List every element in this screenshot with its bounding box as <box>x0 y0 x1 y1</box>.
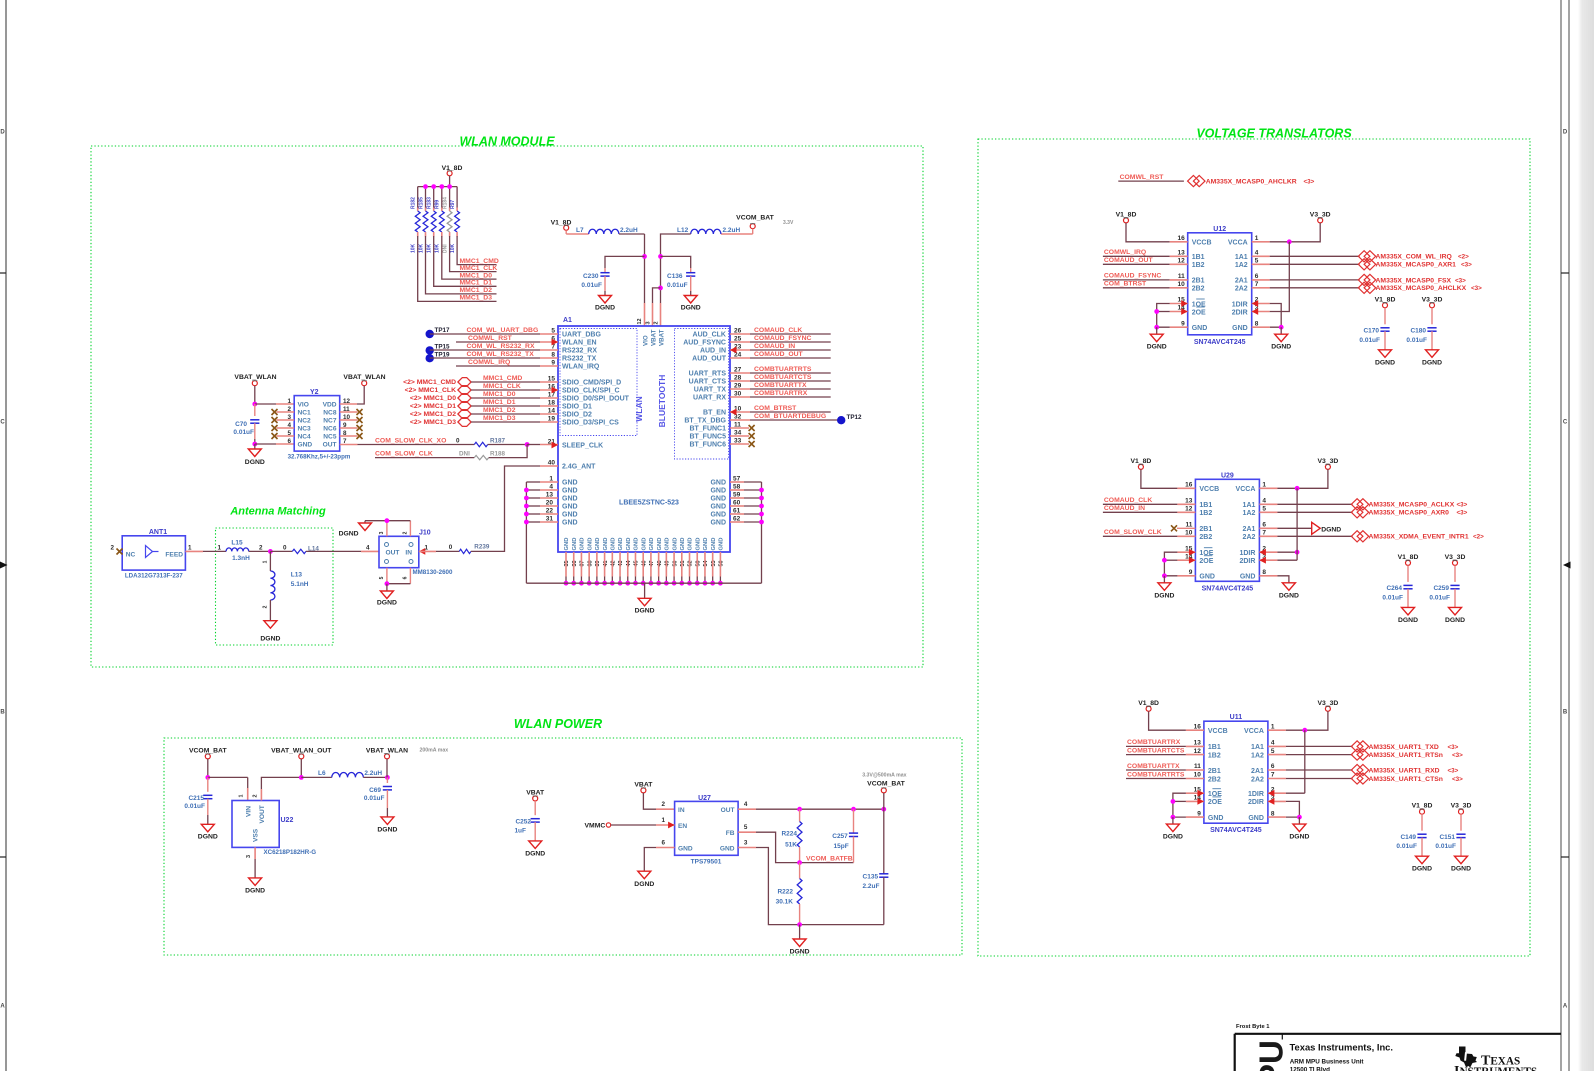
junction U11 VCCA-DIR tie <box>1302 728 1307 733</box>
svg-text:VIO: VIO <box>298 402 309 409</box>
power symbol VBAT_WLAN (Y2 VDD) <box>362 381 367 386</box>
svg-text:3: 3 <box>744 839 748 846</box>
svg-text:DGND: DGND <box>681 305 701 312</box>
wire V3_3D to U12 VCCA <box>1252 241 1270 243</box>
svg-text:TP12: TP12 <box>847 414 863 421</box>
sheet border right inner line <box>1560 0 1562 1071</box>
wire U11 1DIR tie to VCCA <box>1268 792 1286 794</box>
wire pullup to net MMC1_CMD <box>457 236 496 265</box>
svg-text:2OE: 2OE <box>1192 309 1206 316</box>
svg-text:AM335X_MCASP0_FSX: AM335X_MCASP0_FSX <box>1376 277 1452 284</box>
svg-text:8: 8 <box>1255 320 1259 327</box>
svg-text:0.01uF: 0.01uF <box>364 795 385 802</box>
svg-text:12: 12 <box>1185 506 1193 513</box>
svg-text:35: 35 <box>564 561 570 567</box>
svg-text:GND: GND <box>703 538 709 551</box>
svg-text:GND: GND <box>688 538 694 551</box>
test point TP19 <box>426 354 434 362</box>
svg-text:2B1: 2B1 <box>1192 278 1205 285</box>
svg-text:WLAN POWER: WLAN POWER <box>514 717 602 731</box>
svg-text:1B1: 1B1 <box>1208 744 1221 751</box>
svg-text:DGND: DGND <box>1398 617 1418 624</box>
svg-text:2A2: 2A2 <box>1235 286 1248 293</box>
section box WLAN POWER <box>164 738 962 955</box>
svg-text:C252: C252 <box>515 819 531 826</box>
svg-text:COMAUD_OUT: COMAUD_OUT <box>754 351 804 358</box>
power symbol V3_3D (C151) <box>1459 809 1464 814</box>
power symbol VBAT (U27) <box>641 788 646 793</box>
power symbol V1_8D (C149) <box>1420 809 1425 814</box>
svg-text:2A2: 2A2 <box>1251 776 1264 783</box>
ground DGND (C230) <box>599 296 612 304</box>
wire R239 to J10 IN pin 1 <box>419 548 426 555</box>
svg-text:R239: R239 <box>474 544 490 551</box>
svg-text:12: 12 <box>1194 748 1202 755</box>
junction right GND column <box>759 512 764 517</box>
svg-text:6: 6 <box>403 576 409 579</box>
svg-text:43: 43 <box>618 561 624 567</box>
svg-text:48: 48 <box>657 561 663 567</box>
svg-text:<2> MMC1_CMD: <2> MMC1_CMD <box>403 379 456 386</box>
svg-text:2DIR: 2DIR <box>1239 558 1255 565</box>
svg-text:BT_EN: BT_EN <box>703 410 726 417</box>
svg-text:<2> MMC1_D1: <2> MMC1_D1 <box>410 403 456 410</box>
svg-text:DGND: DGND <box>1445 617 1465 624</box>
wire L7 out to A1 VIO pin 12 <box>619 233 645 235</box>
svg-text:VBAT: VBAT <box>634 782 653 789</box>
svg-text:VOLTAGE TRANSLATORS: VOLTAGE TRANSLATORS <box>1196 127 1352 141</box>
svg-text:12: 12 <box>637 318 643 324</box>
svg-text:WLAN MODULE: WLAN MODULE <box>459 135 555 149</box>
svg-text:2DIR: 2DIR <box>1248 799 1264 806</box>
svg-text:2.4G_ANT: 2.4G_ANT <box>562 464 596 471</box>
svg-text:10K: 10K <box>427 243 433 253</box>
svg-text:PU: PU <box>1253 1040 1290 1071</box>
zone tick left y857 <box>0 856 6 858</box>
IC U12 SN74AVC4T245 level translator <box>1188 233 1252 335</box>
ground DGND (J10) <box>380 591 393 599</box>
IC U29 SN74AVC4T245 level translator <box>1195 479 1259 581</box>
wire V1_8D to U12 VCCB <box>1126 223 1170 242</box>
ground DGND (L13) <box>264 621 277 629</box>
wire net COMAUD_IN to U29 <box>1103 511 1178 513</box>
off-page connector AM335X_MCASP0_AHCLKR <box>1188 176 1200 187</box>
svg-text:5: 5 <box>744 824 748 831</box>
svg-text:VCCA: VCCA <box>1236 486 1256 493</box>
svg-text:MMC1_D2: MMC1_D2 <box>483 407 516 414</box>
svg-text:R97: R97 <box>450 200 456 209</box>
zone tick right y273 <box>1561 272 1569 274</box>
svg-text:WLAN_EN: WLAN_EN <box>562 340 597 347</box>
svg-text:MMC1_D3: MMC1_D3 <box>460 295 493 302</box>
svg-text:<3>: <3> <box>1461 262 1472 269</box>
ground DGND (C180) <box>1426 350 1439 358</box>
svg-text:NC4: NC4 <box>298 434 312 441</box>
svg-text:44: 44 <box>626 561 632 567</box>
svg-text:1DIR: 1DIR <box>1248 791 1264 798</box>
wire net COMAUD_FSYNC to U12 <box>1103 279 1170 281</box>
svg-text:16: 16 <box>1185 482 1193 489</box>
svg-text:AM335X_UART1_RTSn: AM335X_UART1_RTSn <box>1369 752 1443 759</box>
svg-text:GND: GND <box>562 496 578 503</box>
off-page connector AM335X_MCASP0_FSX <box>1358 274 1370 285</box>
svg-text:2: 2 <box>263 605 269 608</box>
svg-text:MM8130-2600: MM8130-2600 <box>413 569 453 576</box>
svg-text:C69: C69 <box>369 787 381 794</box>
wire VBAT branch to pin 3 <box>653 288 661 303</box>
svg-text:GND: GND <box>710 496 726 503</box>
sheet border right outer line <box>1568 0 1570 1071</box>
wire R188 to SLEEP_CLK node <box>489 445 527 458</box>
svg-text:V1_8D: V1_8D <box>1375 296 1396 303</box>
junction right GND column <box>759 504 764 509</box>
wire net COM_SLOW_CLK to U29 <box>1103 535 1178 537</box>
section box Antenna Matching <box>216 528 334 645</box>
svg-text:COM_SLOW_CLK_XO: COM_SLOW_CLK_XO <box>375 437 446 444</box>
J10 top shield pins 3 2 to DGND <box>386 521 388 537</box>
svg-text:1: 1 <box>1271 723 1275 730</box>
wire A1 right GND column <box>761 482 763 583</box>
wire V3_3D to U29 VCCA <box>1259 487 1277 489</box>
svg-text:0.01uF: 0.01uF <box>1359 337 1380 344</box>
svg-text:GND: GND <box>1248 815 1264 822</box>
svg-text:1A1: 1A1 <box>1235 254 1248 261</box>
svg-text:11: 11 <box>1186 522 1193 529</box>
svg-text:DGND: DGND <box>1271 344 1291 351</box>
svg-text:MMC1_D3: MMC1_D3 <box>483 415 516 422</box>
svg-text:37: 37 <box>580 561 586 567</box>
wire pullup to net MMC1_D1 <box>434 236 497 286</box>
svg-text:R222: R222 <box>777 889 793 896</box>
wire net COMBTUARTRTS <box>730 372 750 374</box>
A1 BT_FUNC no-connect <box>730 443 749 445</box>
ground DGND (C170) <box>1379 350 1392 358</box>
svg-text:COMWL_RST: COMWL_RST <box>468 335 513 342</box>
wire net COMAUD_OUT to U12 <box>1103 263 1170 265</box>
wire VBAT_WLAN node to C69 <box>386 777 388 783</box>
svg-text:6: 6 <box>1255 273 1259 280</box>
svg-text:U12: U12 <box>1213 226 1226 233</box>
svg-text:56: 56 <box>719 561 725 567</box>
ground DGND (sideways, U29 2A1) <box>1259 527 1277 529</box>
wire V1_8D to pullup bus <box>449 176 451 187</box>
svg-text:V1_8D: V1_8D <box>1116 212 1137 219</box>
svg-text:UART_DBG: UART_DBG <box>562 332 601 339</box>
svg-text:2: 2 <box>110 545 114 552</box>
wire net MMC1_D3 to A1 <box>471 421 540 423</box>
node antenna match junction <box>268 549 273 554</box>
power symbol V1_8D (U11 VCCB) <box>1146 706 1151 711</box>
wire L14 to J10 OUT pin 4 <box>306 550 361 552</box>
wire net COMAUD_OUT <box>730 357 750 359</box>
svg-text:SDIO_CMD/SPI_D: SDIO_CMD/SPI_D <box>562 380 621 387</box>
svg-text:FEED: FEED <box>165 552 183 559</box>
svg-text:55: 55 <box>711 561 717 567</box>
wire net AM335X_MCASP0_AHCLKX <box>1252 287 1270 289</box>
svg-text:AM335X_COM_WL_IRQ: AM335X_COM_WL_IRQ <box>1376 254 1452 261</box>
svg-text:51K: 51K <box>785 842 797 849</box>
svg-text:0.01uF: 0.01uF <box>233 429 254 436</box>
wire U29 1DIR tie to VCCA <box>1259 551 1277 553</box>
svg-text:DGND: DGND <box>1422 359 1442 366</box>
svg-text:C: C <box>1563 420 1568 426</box>
ground DGND (U29 left) <box>1163 576 1165 583</box>
svg-text:COMAUD_OUT: COMAUD_OUT <box>1104 257 1154 264</box>
svg-text:VCOM_BAT: VCOM_BAT <box>189 748 227 755</box>
svg-text:V3_3D: V3_3D <box>1310 212 1331 219</box>
svg-text:COM_WL_UART_DBG: COM_WL_UART_DBG <box>467 327 539 334</box>
svg-text:V1_8D: V1_8D <box>1412 803 1433 810</box>
svg-text:COM_WL_RS232_RX: COM_WL_RS232_RX <box>467 343 535 350</box>
junction pullup bus <box>423 184 428 189</box>
ground DGND (A1 module) <box>644 583 646 598</box>
power symbol V1_8D (U12 VCCB) <box>1124 218 1129 223</box>
svg-text:COMAUD_IN: COMAUD_IN <box>1104 505 1145 512</box>
svg-text:200mA max: 200mA max <box>420 748 449 754</box>
regulator U22 XC6218P182HR-G <box>232 801 279 848</box>
svg-text:GND: GND <box>298 442 313 449</box>
sheet center arrow right <box>1563 562 1571 569</box>
junction ground bus <box>797 922 802 927</box>
power symbol VCOM_BAT (L12 filter) <box>750 224 755 229</box>
svg-text:ANT1: ANT1 <box>149 529 167 536</box>
wire U29 GND pin 8 to DGND <box>1259 575 1277 577</box>
wire net AM335X_XDMA_EVENT_INTR1 <box>1259 535 1277 537</box>
junction left GND column <box>524 504 529 509</box>
svg-text:COMBTUARTRTS: COMBTUARTRTS <box>1127 771 1185 778</box>
wire net COMAUD_IN <box>730 349 750 351</box>
wire VBAT node to C136 <box>661 256 691 268</box>
svg-text:GND: GND <box>710 504 726 511</box>
svg-text:MMC1_D1: MMC1_D1 <box>460 280 493 287</box>
section box WLAN MODULE <box>91 146 923 667</box>
svg-text:NC: NC <box>126 552 136 559</box>
off-page connector AM335X_MCASP0_AHCLKX <box>1358 282 1370 293</box>
svg-text:1B2: 1B2 <box>1208 752 1221 759</box>
wire U12 1DIR tie to GND row <box>1252 303 1270 305</box>
power symbol V3_3D (C180) <box>1430 303 1435 308</box>
junction left GND column <box>524 512 529 517</box>
svg-text:GND: GND <box>634 538 640 551</box>
svg-text:DNI: DNI <box>459 451 470 458</box>
power symbol VBAT_WLAN (output) <box>385 754 390 759</box>
zone tick left y273 <box>0 272 6 274</box>
wire U27 FB pin 5 to feedback node <box>738 831 756 833</box>
svg-text:<2> MMC1_D3: <2> MMC1_D3 <box>410 419 456 426</box>
svg-text:1B1: 1B1 <box>1192 254 1205 261</box>
wire net AM335X_MCASP0_FSX <box>1252 279 1270 281</box>
J10 bottom shield pins 5 6 to DGND <box>386 568 388 584</box>
svg-text:GND: GND <box>564 538 570 551</box>
svg-text:<2> MMC1_D0: <2> MMC1_D0 <box>410 395 456 402</box>
svg-text:13: 13 <box>1194 740 1202 747</box>
svg-text:VIN: VIN <box>246 806 253 817</box>
inductor L12 2.2uH <box>752 229 754 234</box>
ground DGND (C215) <box>201 824 214 832</box>
svg-text:R99: R99 <box>435 200 441 209</box>
connector J10 MM8130-2600 <box>379 536 419 567</box>
svg-text:LBEE5ZSTNC-523: LBEE5ZSTNC-523 <box>619 500 679 507</box>
svg-text:16: 16 <box>1194 723 1202 730</box>
svg-text:1A1: 1A1 <box>1251 744 1264 751</box>
svg-text:WLAN_IRQ: WLAN_IRQ <box>562 364 600 371</box>
svg-text:4: 4 <box>1271 740 1275 747</box>
svg-text:2A1: 2A1 <box>1235 278 1248 285</box>
wire net COMWL_RST (off page) <box>1118 180 1184 182</box>
inductor L6 2.2uH <box>301 776 332 778</box>
svg-text:L13: L13 <box>291 572 303 579</box>
svg-text:VCCB: VCCB <box>1208 728 1228 735</box>
svg-text:2OE: 2OE <box>1199 558 1213 565</box>
svg-text:COMAUD_FSYNC: COMAUD_FSYNC <box>754 335 811 342</box>
off-page connector AM335X_COM_WL_IRQ <box>1358 251 1370 262</box>
wire net AM335X_UART1_RTSn <box>1268 754 1286 756</box>
svg-text:COMAUD_CLK: COMAUD_CLK <box>754 327 802 334</box>
wire V1_8D to U29 VCCB <box>1141 469 1178 488</box>
ground DGND (C259) <box>1449 607 1462 615</box>
capacitor C259 0.01uF <box>1450 584 1459 586</box>
wire net COMWL_IRQ to U12 <box>1103 255 1170 257</box>
capacitor C180 0.01uF <box>1427 327 1436 329</box>
svg-text:2.2uH: 2.2uH <box>723 227 741 234</box>
svg-text:C135: C135 <box>863 874 879 881</box>
svg-text:12: 12 <box>1177 258 1185 265</box>
svg-text:GND: GND <box>572 538 578 551</box>
wire net COM_BTRST to U12 <box>1103 287 1170 289</box>
svg-text:C257: C257 <box>832 833 848 840</box>
svg-text:UART_RX: UART_RX <box>693 395 726 402</box>
svg-text:FB: FB <box>726 830 735 837</box>
wire net COM_SLOW_CLK <box>375 457 474 459</box>
svg-text:2A2: 2A2 <box>1243 534 1256 541</box>
svg-text:12500 TI Blvd: 12500 TI Blvd <box>1290 1067 1330 1071</box>
svg-text:R182: R182 <box>411 197 417 209</box>
svg-text:Texas Instruments, Inc.: Texas Instruments, Inc. <box>1290 1041 1394 1052</box>
svg-text:COMAUD_FSYNC: COMAUD_FSYNC <box>1104 273 1161 280</box>
svg-text:1: 1 <box>425 545 429 552</box>
svg-text:C136: C136 <box>667 273 683 280</box>
svg-text:GND: GND <box>595 538 601 551</box>
wire R187 to A1 SLEEP_CLK pin 21 <box>488 444 527 446</box>
svg-text:0.01uF: 0.01uF <box>581 282 602 289</box>
svg-text:1.3nH: 1.3nH <box>232 555 250 562</box>
svg-text:0.01uF: 0.01uF <box>184 803 205 810</box>
wire net COMBTUARTRX to U11 <box>1126 745 1186 747</box>
svg-text:3: 3 <box>646 321 652 324</box>
svg-text:3.3V: 3.3V <box>783 220 794 226</box>
svg-text:2DIR: 2DIR <box>1232 309 1248 316</box>
svg-text:1uF: 1uF <box>514 828 526 835</box>
svg-text:DGND: DGND <box>1321 526 1341 533</box>
svg-text:GND: GND <box>695 538 701 551</box>
junction U12 OE tie <box>1154 309 1159 314</box>
power symbol V3_3D (C259) <box>1453 560 1458 565</box>
svg-text:DGND: DGND <box>525 851 545 858</box>
svg-text:J10: J10 <box>419 530 431 537</box>
wire VBAT to U27 IN pin 2 <box>643 793 656 809</box>
wire net AM335X_UART1_RXD <box>1268 769 1286 771</box>
svg-text:GND: GND <box>680 538 686 551</box>
off-page connector AM335X_UART1_RTSn <box>1351 749 1363 760</box>
svg-text:41: 41 <box>603 561 609 567</box>
wire R239 to A1 2.4G_ANT pin 40 <box>471 466 540 551</box>
svg-text:6: 6 <box>1271 763 1275 770</box>
svg-text:0.01uF: 0.01uF <box>1429 594 1450 601</box>
svg-text:COMBTUARTTX: COMBTUARTTX <box>1127 763 1180 770</box>
svg-text:MMC1_CLK: MMC1_CLK <box>483 383 521 390</box>
svg-text:AUD_CLK: AUD_CLK <box>693 332 726 339</box>
svg-text:10: 10 <box>1177 281 1185 288</box>
svg-text:VCCA: VCCA <box>1244 728 1264 735</box>
svg-text:NC8: NC8 <box>323 410 337 417</box>
svg-text:GND: GND <box>618 538 624 551</box>
svg-text:SN74AVC4T245: SN74AVC4T245 <box>1194 339 1246 346</box>
svg-text:MMC1_D0: MMC1_D0 <box>483 391 516 398</box>
junction left GND column <box>524 488 529 493</box>
svg-text:<3>: <3> <box>1457 510 1468 517</box>
svg-text:COMBTUARTTX: COMBTUARTTX <box>754 382 807 389</box>
IC U11 SN74AVC4T245 level translator <box>1204 721 1268 823</box>
svg-text:GND: GND <box>580 538 586 551</box>
svg-text:54: 54 <box>703 561 709 567</box>
wire net COMAUD_FSYNC <box>730 341 750 343</box>
svg-text:11: 11 <box>1194 763 1201 770</box>
svg-text:30.1K: 30.1K <box>776 899 794 906</box>
svg-text:<3>: <3> <box>1304 178 1315 185</box>
wire U12 GND pin 8 <box>1252 326 1270 328</box>
svg-text:1: 1 <box>661 817 665 824</box>
svg-text:GND: GND <box>562 512 578 519</box>
svg-text:UART_CTS: UART_CTS <box>689 379 727 386</box>
svg-text:MMC1_D1: MMC1_D1 <box>483 399 516 406</box>
svg-text:D: D <box>0 130 5 136</box>
capacitor C149 0.01uF <box>1417 833 1426 835</box>
svg-text:GND: GND <box>665 538 671 551</box>
svg-text:DNI: DNI <box>442 244 448 253</box>
svg-text:COM_SLOW_CLK: COM_SLOW_CLK <box>375 451 433 458</box>
svg-text:V1_8D: V1_8D <box>1398 554 1419 561</box>
svg-text:COMWL_IRQ: COMWL_IRQ <box>468 359 510 366</box>
svg-text:GND: GND <box>1232 325 1248 332</box>
ground DGND (U12 right) <box>1280 327 1282 334</box>
svg-text:U22: U22 <box>281 817 294 824</box>
wire net COMAUD_CLK to U29 <box>1103 503 1178 505</box>
resistor R222 30.1K <box>799 863 801 879</box>
svg-text:WLAN: WLAN <box>634 396 644 422</box>
svg-text:DGND: DGND <box>245 888 265 895</box>
svg-text:B: B <box>0 710 5 716</box>
svg-text:COMWL_RST: COMWL_RST <box>1120 174 1165 181</box>
svg-text:COM_BTRST: COM_BTRST <box>1104 281 1147 288</box>
wire U29 OE enable tie <box>1177 551 1195 553</box>
junction VBAT pin3 branch <box>658 286 663 291</box>
zone tick right y857 <box>1561 856 1569 858</box>
svg-text:52: 52 <box>688 561 694 567</box>
test point TP15 <box>426 346 434 354</box>
junction U11 GND-2DIR <box>1297 815 1302 820</box>
wire VBAT_WLAN to Y2 VIO <box>254 386 256 404</box>
svg-text:2B1: 2B1 <box>1199 526 1212 533</box>
wire net COMAUD_CLK <box>730 333 750 335</box>
wire net COM_WL_RS232_TX <box>430 357 540 359</box>
svg-text:2B1: 2B1 <box>1208 768 1221 775</box>
wire net COMBTUARTCTS to U11 <box>1126 754 1186 756</box>
svg-text:<2> MMC1_D2: <2> MMC1_D2 <box>410 411 456 418</box>
regulator U27 TPS79501 <box>675 801 739 855</box>
svg-text:<2> MMC1_CLK: <2> MMC1_CLK <box>405 387 456 394</box>
svg-text:B: B <box>1563 710 1568 716</box>
svg-text:GND: GND <box>562 480 578 487</box>
